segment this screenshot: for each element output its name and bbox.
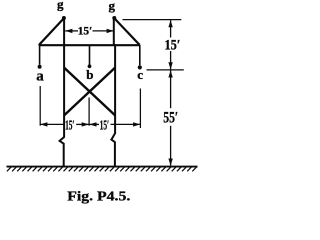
- svg-text:c: c: [137, 67, 143, 82]
- svg-text:g: g: [57, 0, 64, 12]
- svg-text:15′: 15′: [165, 37, 181, 53]
- svg-text:g: g: [109, 0, 116, 13]
- svg-text:a: a: [36, 69, 44, 85]
- svg-text:b: b: [86, 67, 93, 82]
- svg-text:Fig. P4.5.: Fig. P4.5.: [67, 190, 130, 205]
- svg-text:55′: 55′: [163, 110, 178, 127]
- svg-text:15′: 15′: [78, 23, 93, 37]
- svg-text:15′: 15′: [65, 118, 74, 133]
- svg-text:15′: 15′: [100, 118, 110, 133]
